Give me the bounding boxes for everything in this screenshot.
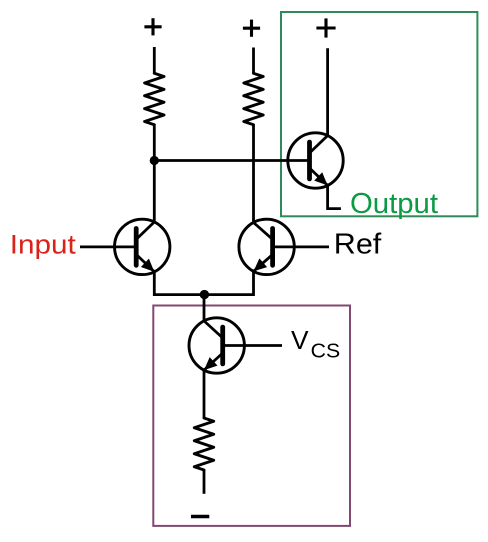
wire R1 to node A — [153, 125, 156, 161]
wire node B to Q4 collector — [203, 295, 206, 321]
emitter rail wire (Q1 emitter down, rail, Q2 emitter down) — [154, 271, 253, 294]
wire Input to Q1 base — [80, 245, 115, 248]
wire +V2 to resistor R2 — [252, 48, 255, 74]
resistor R2 (right collector load) — [244, 73, 263, 124]
node B junction dot (emitter rail) — [200, 290, 209, 299]
svg-text:CS: CS — [311, 339, 341, 362]
wire R2 down to Q2 collector (crosses node-A wire, no junction) — [252, 125, 255, 223]
wire Q4 emitter to resistor R3 — [203, 370, 206, 418]
node A junction dot — [150, 156, 159, 165]
supply plus symbol (middle +V rail) — [243, 20, 260, 37]
wire Q3 emitter output stub — [328, 185, 341, 208]
transistor Q4 (current source, NPN, mirrored) — [189, 318, 244, 373]
wire Q2 base to Ref label — [294, 245, 329, 248]
svg-text:Output: Output — [350, 188, 438, 220]
wire R3 to negative rail — [203, 470, 206, 494]
svg-text:V: V — [291, 325, 309, 355]
wire node A to Q3 base (horizontal) — [154, 159, 288, 162]
supply minus symbol (negative rail) — [191, 515, 209, 519]
resistor R3 (current source emitter resistor) — [194, 418, 213, 470]
wire +V1 to resistor R1 — [153, 47, 156, 73]
output stage box (green) — [281, 12, 477, 216]
current source box (purple) — [153, 306, 350, 526]
wire Q4 base to Vcs label — [244, 344, 282, 347]
supply plus symbol (left +V rail) — [144, 18, 161, 35]
transistor Q1 (input, NPN) — [115, 219, 170, 274]
svg-text:Ref: Ref — [334, 229, 382, 261]
transistor Q3 (output emitter follower, NPN) — [288, 133, 343, 188]
wire node A down to Q1 collector — [153, 161, 156, 223]
transistor Q2 (reference, NPN, mirrored) — [239, 219, 294, 274]
resistor R1 (left collector load) — [145, 73, 164, 124]
svg-text:Input: Input — [10, 229, 77, 259]
supply plus symbol (right +V rail, in output box) — [316, 18, 335, 37]
wire +V3 to Q3 collector — [326, 48, 329, 135]
